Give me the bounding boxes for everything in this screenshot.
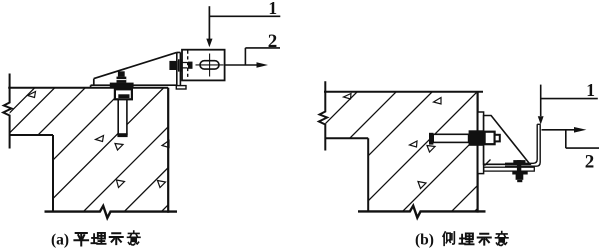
gusset triangle (right): [484, 116, 530, 165]
bolt through leg (left): [169, 61, 177, 70]
right edge: [167, 88, 169, 213]
left edge with break zigzag: [3, 74, 11, 149]
washer plate (black): [110, 83, 134, 88]
bottom plate (right bracket): [484, 167, 535, 171]
right face: [477, 92, 479, 213]
left edge with break zigzag: [319, 81, 327, 150]
step vertical: [52, 135, 54, 212]
hidden edge (dashed) in plate: [187, 51, 189, 80]
aggregate triangles (left block): [28, 92, 170, 188]
anchor bolt shank (left, embedded): [117, 99, 127, 138]
svg-text:2: 2: [268, 31, 278, 52]
bolt through plate (right): [517, 160, 521, 174]
slot oval: [200, 61, 219, 69]
nut (right anchor): [485, 132, 495, 145]
L-strip (adapter): [505, 124, 540, 166]
concrete outline (left block): [3, 74, 177, 218]
small corner tick: [485, 160, 491, 166]
connection plate with slot: [182, 50, 225, 81]
leader 2 (right): [542, 130, 600, 148]
leader 1 (right): [541, 85, 598, 117]
nut (left anchor): [117, 77, 127, 83]
slot crosshair: [196, 54, 224, 77]
aggregate triangles (right block): [344, 94, 442, 189]
side plate on face: [478, 112, 484, 174]
bolt stub: [118, 71, 125, 76]
svg-text:1: 1: [268, 0, 277, 18]
step horizontal: [10, 134, 53, 136]
bottom edge with break: [45, 206, 178, 218]
step vertical: [367, 138, 369, 211]
concrete hatching (left block): [0, 50, 323, 251]
concrete outline (right block): [319, 81, 486, 218]
svg-text:(b): (b): [415, 232, 434, 249]
concrete hatching (right block): [189, 60, 601, 251]
top surface: [8, 87, 168, 89]
leader 2 (left): [225, 48, 280, 65]
svg-text:(a): (a): [51, 232, 69, 249]
leader 1 (left): [209, 6, 280, 39]
embedded channel (left): [115, 89, 132, 99]
svg-text:1: 1: [586, 80, 595, 100]
gusset sloped edge: [94, 52, 177, 85]
anchor T-head: [429, 133, 433, 145]
svg-text:2: 2: [585, 152, 595, 173]
bracket flange (left, on slab top): [91, 85, 177, 88]
embedded anchor shank (right): [433, 134, 468, 142]
top surface: [324, 91, 483, 93]
step horizontal: [325, 137, 368, 139]
leg foot plate: [176, 86, 186, 89]
channel T-head bolt: [118, 94, 129, 98]
washer at face (black): [469, 130, 485, 146]
bottom edge with break: [358, 206, 486, 218]
bolt tip stub: [495, 135, 500, 142]
bracket vertical leg: [177, 52, 181, 85]
